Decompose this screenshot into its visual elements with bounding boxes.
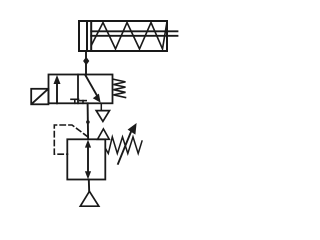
valve V1 right-box diagonal flow path <box>85 75 97 97</box>
valve V1 manual actuator lever box <box>31 89 48 105</box>
regulator R1 relief vent triangle <box>98 129 110 139</box>
flow arrow on wire <box>83 57 89 65</box>
pilot line (dashed) <box>54 125 88 154</box>
valve V1 left-box blocked port T <box>74 99 76 103</box>
valve V1 exhaust stub <box>100 103 102 110</box>
cylinder C1 piston <box>86 21 88 51</box>
cylinder C1 return spring <box>92 23 167 49</box>
cylinder C1 body <box>79 21 167 51</box>
valve V1 exhaust triangle <box>96 111 109 122</box>
valve V1 body <box>49 75 113 104</box>
regulator R1 adjustability arrow <box>118 131 132 164</box>
wire valve-to-cylinder <box>85 51 87 75</box>
wire valve-to-regulator <box>87 103 90 139</box>
air supply triangle <box>80 191 99 206</box>
pilot tap junction dot <box>86 120 90 124</box>
regulator R1 internal double arrow <box>87 143 89 176</box>
cylinder C1 piston rod <box>91 30 177 32</box>
regulator R1 body <box>67 139 105 179</box>
valve V1 left-box flow arrow <box>56 79 58 103</box>
valve V1 box divider <box>77 75 79 104</box>
valve V1 return spring <box>114 79 126 97</box>
regulator R1 adjusting spring <box>106 137 143 154</box>
wire regulator-to-supply <box>88 180 90 192</box>
valve V1 right-box blocked port T <box>82 101 84 104</box>
